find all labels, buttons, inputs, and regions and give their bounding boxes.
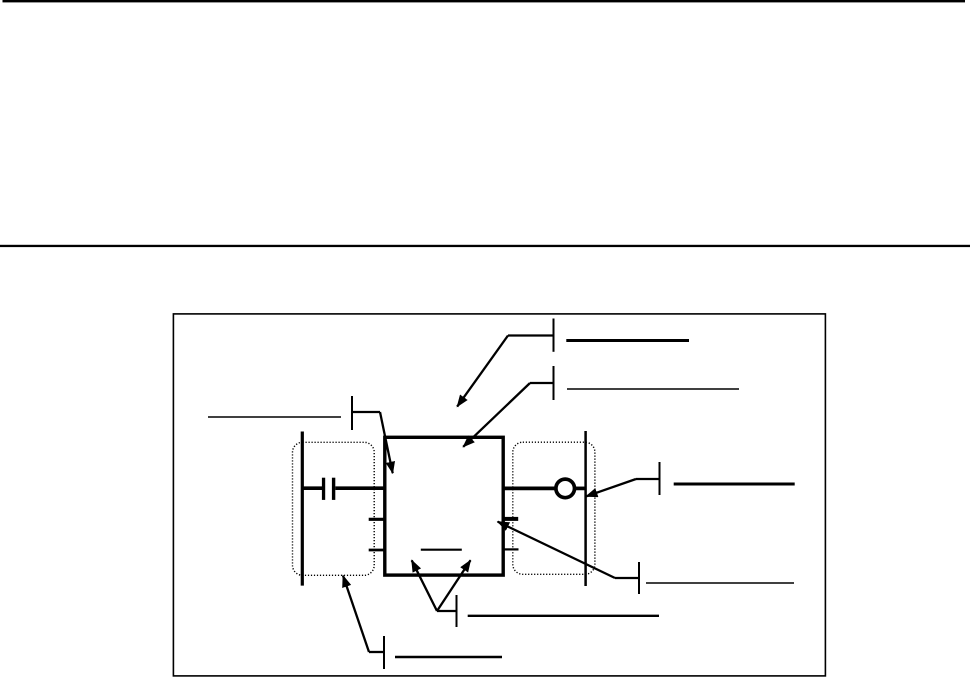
coil <box>556 479 575 498</box>
callout C elbow <box>352 411 380 413</box>
right dotted region <box>513 442 595 574</box>
block left pin stub 2 <box>369 549 385 552</box>
callout A arrow <box>457 336 508 407</box>
callout F tick <box>456 595 458 627</box>
figure frame <box>173 314 825 676</box>
right power rail <box>584 431 587 586</box>
callout B tick <box>553 366 555 400</box>
callout A elbow <box>508 334 554 336</box>
callout B elbow <box>530 382 554 384</box>
callout G tick <box>383 636 385 669</box>
callout B arrow <box>463 383 530 447</box>
block right pin stub 1 <box>503 517 518 521</box>
callout C label line <box>208 416 341 418</box>
callout G label line <box>395 656 502 658</box>
function block <box>385 437 503 575</box>
callout E tick <box>638 562 640 594</box>
wire coil to right rail <box>575 487 587 491</box>
callout D tick <box>659 462 661 495</box>
page middle rule <box>0 245 970 247</box>
callout A label line <box>566 339 689 342</box>
block inner dash <box>421 549 462 551</box>
callout D label line <box>674 483 795 486</box>
callout A tick <box>553 319 555 352</box>
callout F arrow 2 <box>437 560 471 611</box>
left dotted region <box>293 442 375 575</box>
callout E arrow <box>498 522 615 578</box>
callout E elbow <box>615 577 639 579</box>
callout C tick <box>351 396 353 430</box>
wire block to coil <box>503 487 556 491</box>
callout D elbow <box>636 478 660 480</box>
callout D arrow <box>586 479 636 496</box>
callout F elbow <box>437 610 457 612</box>
callout F label line <box>468 615 659 617</box>
callout F arrow 1 <box>412 560 437 611</box>
callout C arrow <box>380 412 393 473</box>
block left pin stub 1 <box>369 518 385 521</box>
page top rule <box>3 0 966 2</box>
callout E label line <box>646 582 794 584</box>
block right pin stub 2 <box>503 548 518 550</box>
callout G elbow <box>369 651 384 653</box>
left power rail <box>301 432 304 586</box>
contact (normally open) <box>322 478 325 500</box>
callout B label line <box>567 388 739 390</box>
callout G arrow <box>343 576 369 652</box>
wire rail to contact <box>302 486 322 490</box>
wire contact to block <box>335 486 385 490</box>
